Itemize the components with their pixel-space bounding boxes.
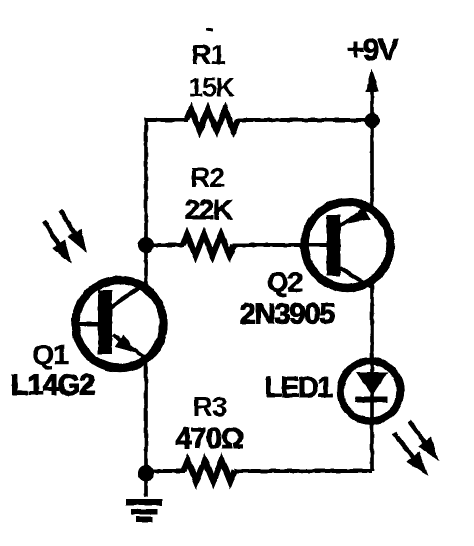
svg-text:Q1: Q1 (32, 339, 68, 370)
svg-text:R3: R3 (193, 391, 227, 422)
svg-text:470Ω: 470Ω (176, 423, 244, 455)
svg-text:2N3905: 2N3905 (240, 299, 335, 331)
svg-text:Q2: Q2 (267, 267, 303, 298)
svg-text:22K: 22K (185, 194, 233, 225)
svg-text:+9V: +9V (346, 32, 398, 67)
svg-text:L14G2: L14G2 (11, 370, 95, 402)
svg-text:LED1: LED1 (265, 372, 334, 404)
svg-text:R1: R1 (191, 39, 225, 70)
svg-text:15K: 15K (188, 73, 235, 103)
svg-text:R2: R2 (190, 162, 224, 193)
